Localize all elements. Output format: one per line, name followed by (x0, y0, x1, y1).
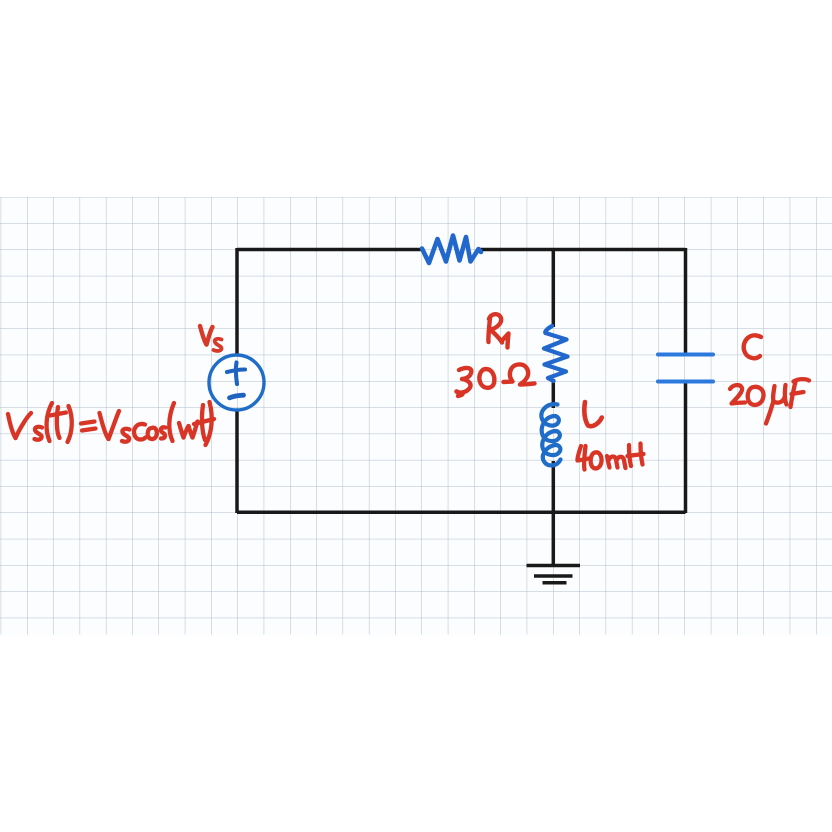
ground (527, 566, 581, 583)
voltage source Vs (209, 355, 264, 410)
resistor (series, top wire) (422, 236, 481, 264)
wire right upper (node A down to capacitor) (684, 248, 688, 354)
label C (red, right) (744, 335, 761, 358)
label R1 (red, near R1) (488, 314, 508, 347)
label Vs(t)=Vs cos(wt) (red formula, left) (8, 402, 214, 445)
wire right lower (capacitor to bottom wire) (684, 382, 688, 513)
inductor L (middle branch coil) (541, 404, 560, 465)
capacitor C (right branch plates) (658, 355, 713, 382)
label 40 mH (red) (577, 444, 643, 470)
wire left lower (source - down to bottom wire) (235, 410, 239, 513)
label L (red, near inductor) (584, 402, 601, 426)
label Vs (red, above source) (200, 326, 222, 351)
label 20 uF (red) (730, 379, 809, 423)
wire middle upper (node A down to R1) (552, 250, 556, 328)
wire middle between R1 and L (552, 379, 556, 408)
wire middle lower (L down through bottom wire to ground) (552, 461, 556, 565)
resistor R1 (middle branch) (544, 326, 568, 381)
wire top-right segment (series resistor to node A) (478, 248, 686, 252)
wire bottom (237, 510, 686, 514)
wire top-left segment (top node to series resistor) (237, 248, 422, 252)
wire left upper (top wire down to source +) (235, 248, 239, 355)
label 30 ohm (red) (457, 364, 535, 396)
